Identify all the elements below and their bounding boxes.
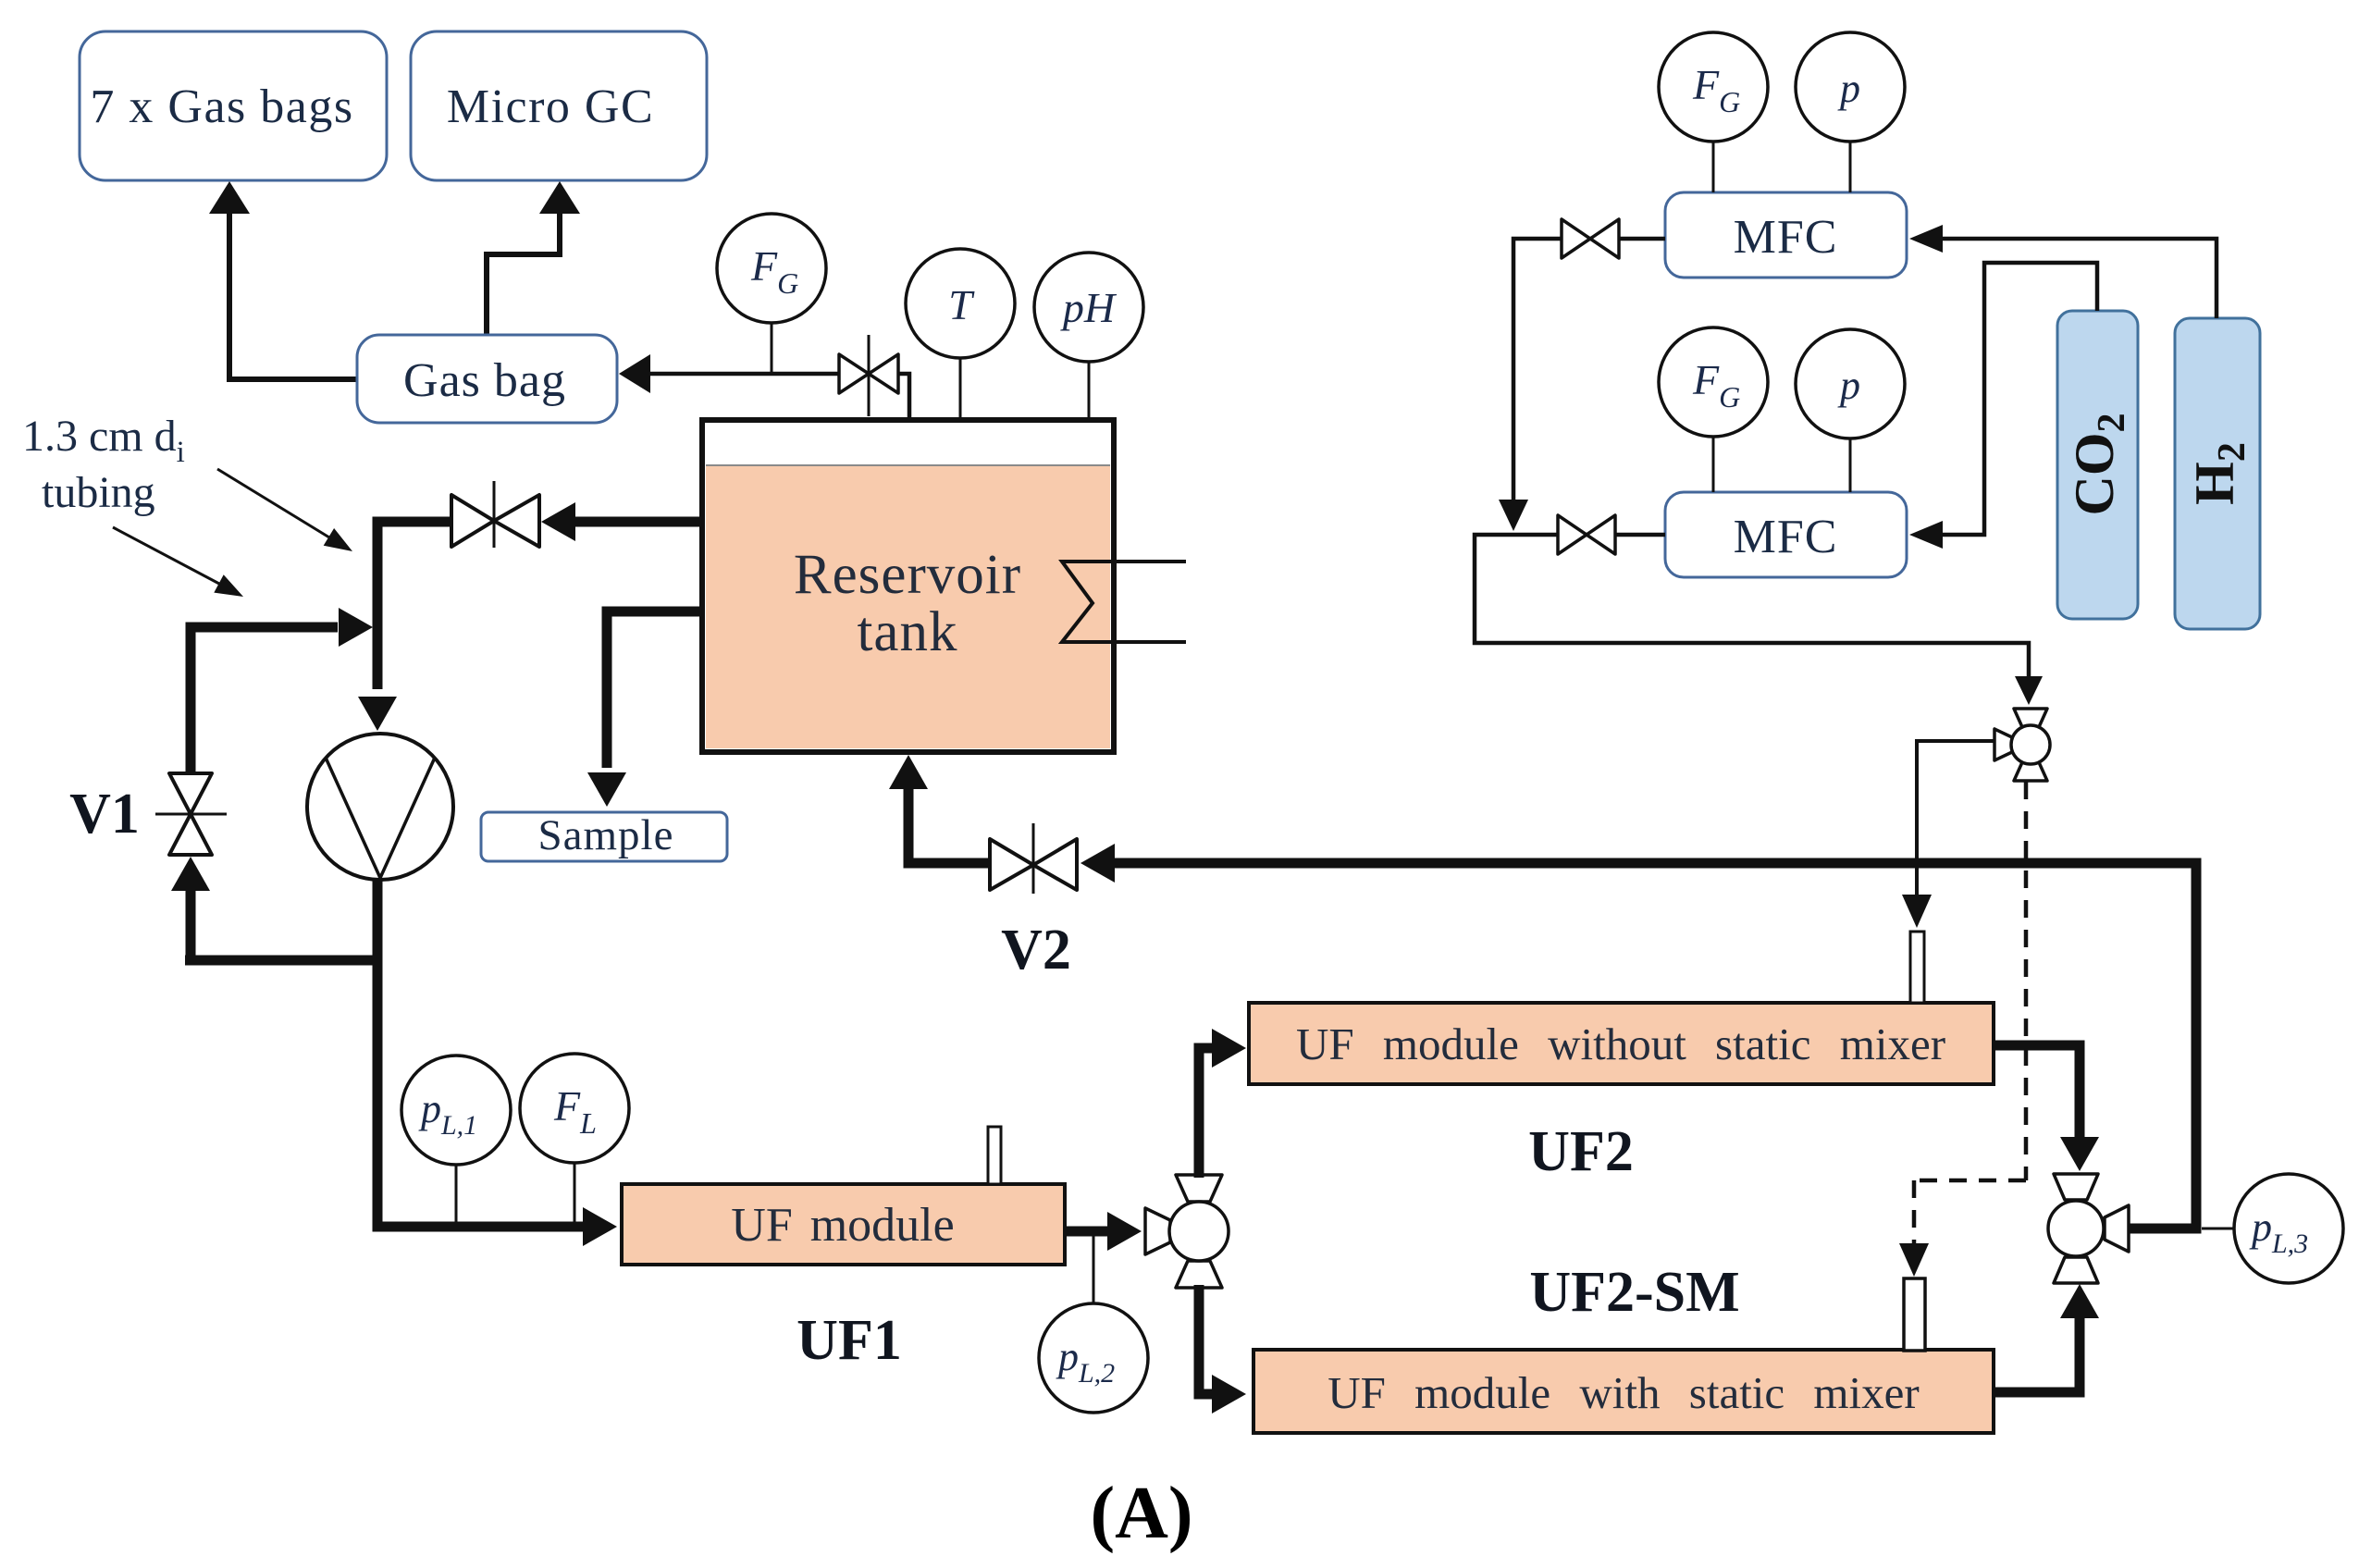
MFC 1 box — [1665, 192, 1907, 278]
heating coil on tank wall — [1062, 562, 1186, 642]
svg-text:V2: V2 — [1001, 919, 1071, 982]
valve: gas bag line valve — [839, 335, 898, 416]
svg-text:V1: V1 — [69, 783, 140, 846]
reservoir tank — [702, 420, 1114, 752]
svg-text:Sample: Sample — [538, 811, 674, 859]
box: Sample — [481, 811, 727, 861]
box: Gas bag — [357, 335, 617, 423]
instrument FL — [520, 1054, 629, 1227]
UF2 module (without static mixer) — [1249, 1003, 1994, 1084]
valve: headspace recycle valve — [451, 481, 539, 548]
valve: MFC1 outlet valve — [1562, 219, 1665, 258]
svg-text:tank: tank — [857, 601, 957, 663]
sensor port above UF2-SM — [1904, 1278, 1925, 1351]
svg-text:Micro GC: Micro GC — [447, 80, 654, 133]
wire: UF1 outlet to three-way valve — [1065, 1212, 1142, 1251]
dashed wire: gas valve down and over to UF2-SM sensor — [1899, 782, 2026, 1277]
valve V2 — [990, 823, 1077, 894]
wire: Gas bag to Micro GC (zigzag) — [487, 181, 580, 335]
svg-text:Gas bag: Gas bag — [403, 354, 566, 407]
wire: CO2 to MFC2 — [1909, 263, 2097, 549]
svg-text:UF2-SM: UF2-SM — [1529, 1261, 1739, 1324]
valve: MFC2 outlet valve — [1558, 515, 1665, 554]
sensor port above UF1 — [988, 1127, 1001, 1184]
instrument p3 (MFC2) — [1796, 329, 1905, 492]
CO2 cylinder — [2057, 311, 2138, 619]
wire: headspace valve to riser and riser down to pump — [358, 522, 451, 731]
wire: Gas bag to 7 x Gas bags — [209, 181, 357, 379]
svg-text:MFC: MFC — [1734, 211, 1838, 264]
wire: H2 to MFC1 — [1909, 225, 2217, 318]
svg-text:(A): (A) — [1090, 1473, 1192, 1554]
wire: tank to headspace valve (thick) — [541, 502, 702, 541]
svg-text:UF module with static mixer: UF module with static mixer — [1328, 1367, 1919, 1418]
instrument T — [906, 249, 1015, 420]
three-way valve XV1 (after UF1) — [1145, 1175, 1229, 1288]
MFC 2 box — [1665, 492, 1907, 577]
instrument FG1 (gas flow meter, gas bag line) — [717, 214, 826, 374]
label: 1.3 cm di tubing — [22, 412, 185, 517]
instrument pL3 — [2202, 1174, 2343, 1283]
wire: return into V1 from below — [171, 857, 210, 960]
H2 cylinder — [2175, 318, 2260, 629]
instrument FG3 (MFC2) — [1659, 327, 1768, 492]
wire: UF2 outlet down to valve XV2 — [1994, 1045, 2099, 1171]
svg-text:7 x Gas bags: 7 x Gas bags — [90, 80, 353, 133]
wire: V1 return to riser (thick) — [191, 608, 373, 773]
wire: tank headspace to Gas bag — [619, 354, 909, 417]
wire: mixed gas line down to sparger valve — [1475, 535, 2043, 705]
svg-text:MFC: MFC — [1734, 511, 1838, 563]
svg-text:p: p — [1837, 66, 1860, 111]
wire: tank to Sample — [587, 611, 702, 807]
callout arrow to riser tubing — [217, 469, 352, 551]
callout arrow to return tubing — [113, 527, 243, 597]
instrument pH — [1034, 253, 1143, 420]
instrument FG2 (MFC1) — [1659, 32, 1768, 192]
svg-text:p: p — [1837, 363, 1860, 408]
wire: XV2 return line to V2 (thick) — [1081, 844, 2196, 1228]
wire: UF2-SM outlet up to valve XV2 — [1994, 1284, 2099, 1392]
svg-text:UF1: UF1 — [797, 1309, 902, 1372]
wire: pump outlet down and to UF1 — [377, 880, 617, 1246]
svg-text:tubing: tubing — [42, 468, 155, 517]
box: Micro GC — [411, 31, 707, 180]
valve V1 — [155, 773, 227, 855]
UF2-SM module (with static mixer) — [1253, 1350, 1994, 1433]
instrument pL1 — [401, 1056, 511, 1227]
svg-text:Reservoir: Reservoir — [794, 544, 1021, 606]
three-way valve XV2 (merge) — [2048, 1174, 2129, 1283]
pump — [307, 734, 453, 880]
gas three-way valve (sparge distributor) — [1994, 709, 2050, 781]
UF1 module — [622, 1184, 1065, 1265]
sensor port above UF2 with line from gas three-way valve — [1902, 741, 1994, 1003]
svg-text:UF module without static mixer: UF module without static mixer — [1296, 1019, 1945, 1069]
svg-text:UF module: UF module — [731, 1199, 954, 1252]
instrument p2 (MFC1) — [1796, 32, 1905, 192]
wire: branch from pump line to V1 return — [185, 956, 382, 966]
svg-text:pH: pH — [1060, 284, 1118, 331]
svg-text:UF2: UF2 — [1528, 1120, 1634, 1183]
svg-text:T: T — [948, 281, 975, 328]
instrument pL2 — [1039, 1231, 1148, 1413]
wire: MFC1 outlet down to MFC2 outlet line — [1499, 239, 1562, 531]
wire: XV1 up to UF2 — [1199, 1029, 1246, 1178]
svg-text:1.3 cm di: 1.3 cm di — [22, 412, 185, 469]
wire: XV1 down to UF2-SM — [1199, 1285, 1246, 1414]
wire: V2 to tank bottom — [889, 755, 990, 863]
box: 7 x Gas bags — [80, 31, 387, 180]
